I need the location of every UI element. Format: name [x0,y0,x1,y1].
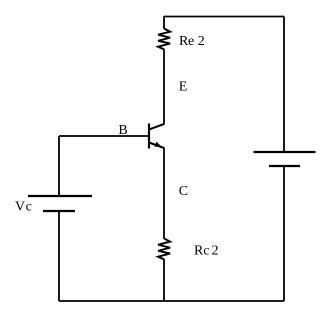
wire emitter vertical (transistor up to Re2) [163,50,165,125]
transistor Q (base bar) [148,124,150,149]
wire right lower (right battery - plate down to bottom wire) [283,166,285,301]
svg-text:Vc: Vc [15,200,32,215]
wire Rc2 bottom lead (down to bottom rail) [163,259,165,301]
transistor Q emitter diagonal lead [149,124,164,130]
wire right upper (top wire down to right battery + plate) [283,17,285,153]
wire collector vertical (transistor down to Rc2) [163,148,165,239]
transistor Q collector diagonal lead [149,143,164,149]
battery right, long plate (+) [254,151,316,153]
resistor Re2 (zigzag) [158,29,170,50]
svg-text:Rc2: Rc2 [194,244,218,259]
wire Re2 top lead [163,16,165,29]
resistor Rc2 (zigzag) [158,239,170,260]
svg-text:Re2: Re2 [179,34,205,49]
wire base (left vertical to transistor base) [59,135,149,137]
battery right, short plate (-) [269,165,300,167]
battery Vc, long plate (+) [28,195,92,197]
wire bottom (ground rail) [59,300,284,302]
battery Vc, short plate (-) [43,210,75,212]
wire left lower (left battery - plate down to bottom wire) [58,211,60,301]
svg-text:B: B [118,123,127,138]
wire top (emitter branch to right battery) [164,16,284,18]
svg-text:C: C [179,184,188,199]
svg-text:E: E [179,80,188,95]
wire left upper (base wire corner down to left battery) [58,136,60,196]
transistor Q arrow (on collector lead) [155,142,162,147]
